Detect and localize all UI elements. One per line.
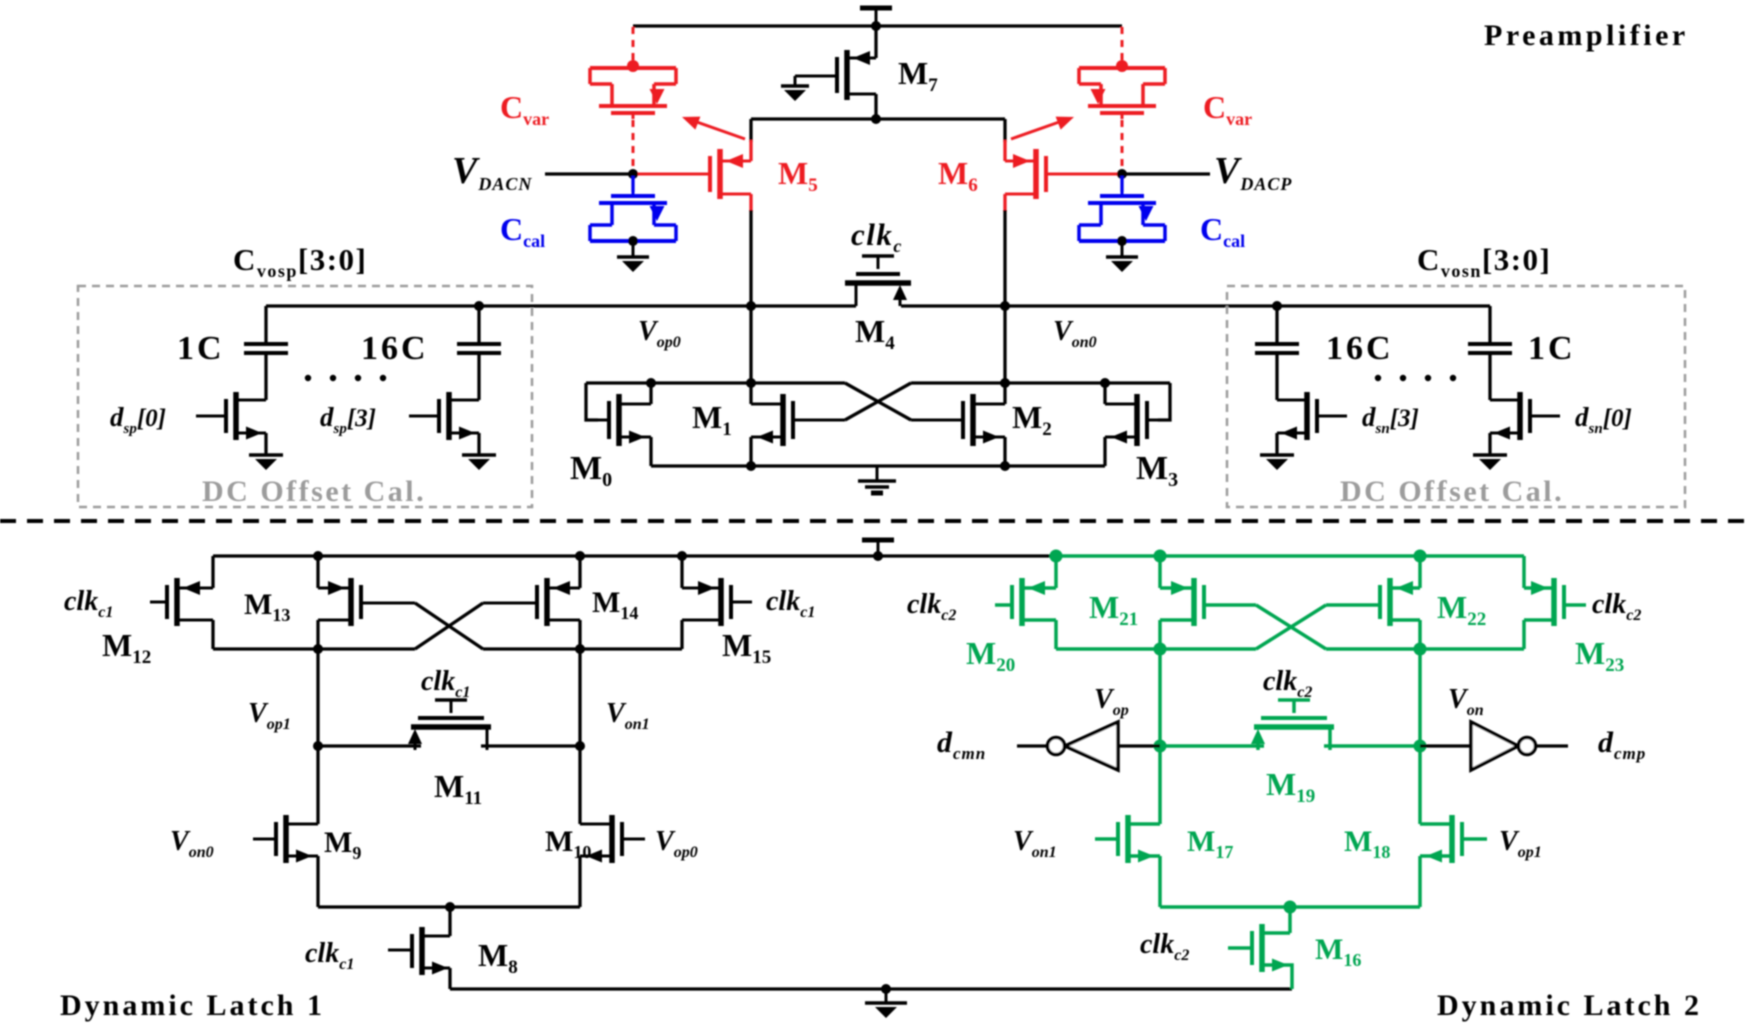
svg-text:dsn[0]: dsn[0] xyxy=(1575,402,1632,437)
svg-text:dsn[3]: dsn[3] xyxy=(1362,402,1419,437)
wire M20 source corner (green) xyxy=(1054,556,1058,588)
ground (d_sn[0]) xyxy=(1473,441,1507,470)
ground (core tail) xyxy=(858,466,896,493)
capacitor 1C (right box) xyxy=(1468,344,1512,353)
svg-text:16C: 16C xyxy=(1326,330,1394,367)
svg-text:1C: 1C xyxy=(1528,330,1576,367)
node C_cal right bottom dot xyxy=(1117,236,1127,246)
node M21 source rail dot xyxy=(1154,550,1167,563)
label Preamplifier xyxy=(1484,19,1689,52)
label V_on1 (latch1) xyxy=(606,698,650,733)
transistor M2 xyxy=(911,394,1005,446)
wire right 16C bottom lead xyxy=(1275,353,1278,400)
label M18 xyxy=(1344,825,1390,862)
wire 1C top lead xyxy=(264,306,267,344)
capacitor C_cal (right) xyxy=(1079,190,1165,241)
label M12 xyxy=(102,627,151,668)
wire M16 drain up (green) xyxy=(1288,907,1292,933)
node rail dot V_on0 xyxy=(1000,301,1010,311)
wire latch top rail (green) xyxy=(1056,554,1524,558)
node core dot V_op0 xyxy=(746,378,756,388)
node M13 source rail dot xyxy=(313,551,323,561)
wire M7 drain down xyxy=(874,94,877,119)
svg-text:DC Offset Cal.: DC Offset Cal. xyxy=(202,475,426,508)
svg-text:Dynamic Latch 2: Dynamic Latch 2 xyxy=(1437,989,1702,1022)
capacitor 16C (right box) xyxy=(1255,344,1299,353)
label Dynamic Latch 1 xyxy=(60,989,325,1022)
svg-text:Cvosn[3:0]: Cvosn[3:0] xyxy=(1417,242,1551,281)
transistor M16 (green) xyxy=(1228,924,1290,972)
node M11 left dot xyxy=(313,741,323,751)
wire latch2 right vertical (green) xyxy=(1418,649,1422,824)
node M14 source rail dot xyxy=(575,551,585,561)
label M10 xyxy=(545,825,591,862)
label M22 xyxy=(1437,589,1486,630)
svg-text:dsp[3]: dsp[3] xyxy=(320,402,376,437)
wire M3 gate corner xyxy=(1158,383,1170,420)
wire V_on0 vertical xyxy=(1003,306,1006,404)
wire M6 source up (black part) xyxy=(1003,119,1006,142)
label clk_c1 (M11) xyxy=(421,666,470,701)
label V_op1 (M18 gate) xyxy=(1499,826,1542,861)
label 1C (right box) xyxy=(1528,330,1576,367)
wire 16C bottom lead xyxy=(477,353,480,400)
wire M13 drain down xyxy=(316,620,319,649)
label clk_c1 (M15) xyxy=(766,586,815,621)
wire M3 source down xyxy=(1103,437,1106,466)
dots ellipsis left box xyxy=(305,375,386,381)
wire latch top rail (black) xyxy=(213,554,1058,557)
label clk_c1 (M8) xyxy=(305,938,354,973)
wire M10 source down xyxy=(578,856,581,907)
svg-text:DC Offset Cal.: DC Offset Cal. xyxy=(1340,475,1564,508)
label d_sn[0] xyxy=(1575,402,1632,437)
transistor M8 xyxy=(388,927,450,975)
wire M5 drain down to V_op0 rail xyxy=(749,210,752,306)
wire inverter2 output lead xyxy=(1536,744,1568,747)
node core source dot left xyxy=(746,461,756,471)
wire V_DACP lead xyxy=(1122,172,1210,175)
wire latch2 cross diagonal A (green) xyxy=(1256,605,1326,649)
transistor M19 (green pass gate) xyxy=(1251,700,1334,750)
wire M6 drain down (red part) xyxy=(1003,194,1006,212)
wire cross-couple diagonal A (core) xyxy=(845,383,911,420)
label 16C (right box) xyxy=(1326,330,1394,367)
annotation arrow to left C_var xyxy=(682,117,745,139)
wire red dashed right (C_var top plate to supply) xyxy=(1121,27,1124,62)
box DC offset cal right (dashed) xyxy=(1227,286,1685,507)
label V_DACP xyxy=(1214,150,1292,194)
wire inverter1 output lead xyxy=(1017,744,1046,747)
label M7 xyxy=(898,55,938,96)
wire latch2 lower rail right (green) xyxy=(1326,647,1524,651)
node latch2 lower left dot xyxy=(1154,643,1167,656)
capacitor C_var (left varactor) xyxy=(590,68,676,119)
wire V_on0 rail (right) xyxy=(901,304,1490,307)
wire M5 source up (red part) xyxy=(749,140,752,161)
transistor d_sn[3] switch xyxy=(1277,392,1347,440)
transistor d_sp[3] switch xyxy=(409,392,479,440)
label V_on1 (M17 gate) xyxy=(1013,826,1057,861)
node core dot M0 drain xyxy=(646,378,656,388)
wire 1C right bottom lead xyxy=(1488,353,1491,400)
ground (d_sn[3]) xyxy=(1260,441,1294,470)
wire M19 left link (green) xyxy=(1160,744,1264,748)
label V_on0 xyxy=(1053,316,1097,351)
node V_DACN junction dot xyxy=(628,169,638,179)
wire latch1 lower rail right xyxy=(483,647,682,650)
label d_cmn xyxy=(937,726,986,763)
wire M22 source up (green) xyxy=(1418,556,1422,588)
label M19 xyxy=(1266,766,1315,807)
wire M11 right link xyxy=(481,744,580,747)
svg-text:Dynamic Latch 1: Dynamic Latch 1 xyxy=(60,989,325,1022)
label M20 xyxy=(966,635,1015,676)
transistor M13 xyxy=(318,578,415,626)
wire V_on1 vertical xyxy=(578,649,581,824)
wire V_op0 rail (left) xyxy=(266,304,856,307)
node M20 source rail dot xyxy=(1050,550,1063,563)
transistor M6 (red) xyxy=(1005,149,1122,199)
transistor M0 xyxy=(598,394,651,446)
node core source dot right xyxy=(1000,461,1010,471)
label C_cal (left) xyxy=(500,211,545,251)
label V_op1 (latch1) xyxy=(248,698,291,733)
wire V_op1 vertical xyxy=(316,649,319,824)
node M11 right dot xyxy=(575,741,585,751)
svg-text:1C: 1C xyxy=(177,330,225,367)
wire M21 drain down (green) xyxy=(1158,620,1162,649)
wire core source rail xyxy=(651,464,1105,467)
dots ellipsis right box xyxy=(1375,375,1456,381)
label C_var (right) xyxy=(1203,89,1252,129)
node M15 source rail dot xyxy=(677,551,687,561)
wire V_op0 vertical xyxy=(749,306,752,404)
node bottom rail ground dot xyxy=(881,984,891,994)
wire d_sn[3] source down xyxy=(1275,433,1278,453)
transistor M18 (green) xyxy=(1420,815,1487,863)
label M11 xyxy=(434,768,482,809)
label d_sn[3] xyxy=(1362,402,1419,437)
wire M12 source corner xyxy=(211,556,214,588)
wire d_sn[0] source down xyxy=(1488,433,1491,453)
node latch1 lower left dot xyxy=(313,644,323,654)
ground (bottom rail) xyxy=(865,989,907,1018)
label M4 xyxy=(855,313,895,354)
label 16C (left box) xyxy=(361,330,429,367)
wire 16C top lead xyxy=(477,306,480,344)
ground (C_cal left) xyxy=(617,241,649,272)
wire right 16C top lead xyxy=(1275,306,1278,344)
wire V_DACN lead xyxy=(545,172,633,175)
ground (d_sp[3]) xyxy=(462,441,496,470)
wire M20 drain corner (green) xyxy=(1054,620,1058,649)
ground (M7 gate) xyxy=(781,76,809,101)
wire C_cal right gate stub xyxy=(1120,176,1123,192)
wire M15 drain down xyxy=(680,620,683,649)
label M16 xyxy=(1315,933,1361,970)
label M2 xyxy=(1012,399,1052,440)
wire M15 source up xyxy=(680,556,683,588)
label V_on0 (M9 gate) xyxy=(170,826,214,861)
wire latch1 cross diagonal A xyxy=(415,603,483,649)
label M3 xyxy=(1136,450,1178,491)
label d_sp[3] xyxy=(320,402,376,437)
transistor M1 xyxy=(751,394,845,446)
label M5 xyxy=(778,155,818,196)
transistor M11 (pass gate) xyxy=(408,700,491,750)
label M6 xyxy=(938,155,978,196)
node core dot V_on0 xyxy=(1000,378,1010,388)
node VDD latch dot xyxy=(873,551,883,561)
label d_cmp xyxy=(1598,726,1646,763)
wire d_sp[0] source down xyxy=(264,433,267,453)
wire M16 source down (green) xyxy=(1290,965,1292,989)
transistor M20 (green) xyxy=(995,578,1056,626)
wire M22 drain down (green) xyxy=(1418,620,1422,649)
label V_on (inverter2) xyxy=(1448,684,1484,719)
wire M21 source up (green) xyxy=(1158,556,1162,588)
node V_DACP junction dot xyxy=(1117,169,1127,179)
wire bottom ground rail xyxy=(450,987,1292,990)
transistor M23 (green) xyxy=(1524,578,1586,626)
transistor M3 xyxy=(1105,394,1158,446)
label clk_c2 (M20) xyxy=(907,589,956,624)
transistor M5 (red) xyxy=(633,149,751,199)
wire M13 source up xyxy=(316,556,319,588)
node C_var right top dot xyxy=(1116,60,1128,72)
wire 1C right top lead xyxy=(1488,306,1491,344)
wire M12 drain corner xyxy=(211,620,214,649)
label C_vosp[3:0] xyxy=(233,242,367,281)
label 1C (left box) xyxy=(177,330,225,367)
wire red dashed right (C_var gate to V_DACP node) xyxy=(1121,120,1124,168)
capacitor 16C (left box) xyxy=(457,344,501,353)
wire M0 drain up xyxy=(649,383,652,404)
wire M18 source down (green) xyxy=(1418,856,1422,907)
power supply VDD (top) xyxy=(860,8,892,27)
wire M5 drain down (red part) xyxy=(749,194,752,212)
label C_vosn[3:0] xyxy=(1417,242,1551,281)
wire latch2 lower rail left (green) xyxy=(1056,647,1256,651)
transistor M4 (pass gate) xyxy=(845,256,911,306)
inverter U1 (d_cmn) xyxy=(1048,722,1119,770)
wire core top line right xyxy=(911,381,1170,384)
label clk_c1 (M12) xyxy=(64,586,113,621)
node C_var left top dot xyxy=(627,60,639,72)
wire preamp top cross rail xyxy=(751,117,1005,120)
wire inverter1 input lead xyxy=(1118,744,1160,747)
label M14 xyxy=(592,586,638,623)
label M17 xyxy=(1187,825,1233,862)
label C_cal (right) xyxy=(1200,211,1245,251)
label V_op0 (M10 gate) xyxy=(655,826,698,861)
wire d_sp[3] source down xyxy=(477,433,480,453)
wire M23 source corner (green) xyxy=(1522,556,1526,588)
wire cross-couple diagonal B (core) xyxy=(845,383,911,420)
label M9 xyxy=(324,826,361,863)
label M13 xyxy=(244,588,290,625)
transistor M17 (green) xyxy=(1095,815,1160,863)
annotation arrow to right C_var xyxy=(1011,117,1074,139)
transistor M10 xyxy=(580,815,645,863)
wire M14 source up xyxy=(578,556,581,588)
node C_cal left bottom dot xyxy=(628,236,638,246)
wire M2 source down xyxy=(1003,437,1006,466)
wire red dashed left (C_var top plate to supply) xyxy=(632,27,635,62)
svg-text:Cvosp[3:0]: Cvosp[3:0] xyxy=(233,242,367,281)
label V_DACN xyxy=(452,150,532,194)
label d_sp[0] xyxy=(110,402,166,437)
wire latch2 left vertical (green) xyxy=(1158,649,1162,824)
node rail dot V_op0 xyxy=(746,301,756,311)
separator dashed line xyxy=(0,519,1750,523)
label clk_c2 (M19) xyxy=(1263,666,1312,701)
node VDD top rail dot xyxy=(871,21,881,31)
wire inverter2 input lead xyxy=(1420,744,1471,747)
node M19 left dot xyxy=(1154,740,1167,753)
wire M7 source to rail xyxy=(874,26,877,58)
wire M17 source down (green) xyxy=(1158,856,1162,907)
wire latch1 cross diagonal B xyxy=(415,603,483,649)
node latch1 lower right dot xyxy=(575,644,585,654)
label Dynamic Latch 2 xyxy=(1437,989,1702,1022)
node latch1 tail dot xyxy=(445,902,455,912)
svg-text:16C: 16C xyxy=(361,330,429,367)
node M19 right dot xyxy=(1414,740,1427,753)
label DC Offset Cal. (left) xyxy=(202,475,426,508)
wire latch1 lower rail left xyxy=(213,647,415,650)
capacitor C_cal (left) xyxy=(590,190,676,241)
label C_var (left) xyxy=(500,89,549,129)
label V_op0 xyxy=(638,316,681,351)
inverter U2 (d_cmp) xyxy=(1471,722,1536,770)
wire M0 source down xyxy=(649,437,652,466)
node core dot M3 drain xyxy=(1100,378,1110,388)
label M8 xyxy=(478,937,518,978)
transistor M22 (green) xyxy=(1326,578,1420,626)
power supply VDD (latch rail) xyxy=(862,540,894,556)
label M1 xyxy=(692,399,732,440)
capacitor C_var (right varactor) xyxy=(1079,68,1165,119)
label clk_c xyxy=(851,217,903,256)
wire M1 source down xyxy=(749,437,752,466)
wire M5 source up (black part) xyxy=(749,119,752,142)
wire red dashed left (C_var gate to V_DACN node) xyxy=(632,120,635,168)
label M21 xyxy=(1089,589,1138,630)
wire M6 drain down to V_on0 rail xyxy=(1003,210,1006,306)
wire latch2 cross diagonal B (green) xyxy=(1256,605,1326,649)
transistor M14 xyxy=(483,578,580,626)
wire M9 source down xyxy=(316,856,319,907)
wire latch2 tail rail (green) xyxy=(1160,905,1420,909)
label DC Offset Cal. (right) xyxy=(1340,475,1564,508)
ground (d_sp[0]) xyxy=(249,441,283,470)
wire M11 left link xyxy=(318,744,421,747)
label M23 xyxy=(1575,635,1624,676)
wire M23 drain corner (green) xyxy=(1522,620,1526,649)
wire M14 drain down xyxy=(578,620,581,649)
node M22 source rail dot xyxy=(1414,550,1427,563)
wire core top line left xyxy=(586,381,845,384)
wire latch1 tail rail xyxy=(318,905,580,908)
transistor d_sn[0] switch xyxy=(1490,392,1560,440)
wire M0 gate corner xyxy=(586,383,598,420)
wire top supply rail xyxy=(633,24,1122,27)
wire M8 drain up xyxy=(448,907,451,936)
wire M6 source up (red part) xyxy=(1003,140,1006,161)
node M7 drain dot xyxy=(871,114,881,124)
node rail dot left 16C xyxy=(474,301,484,311)
label clk_c2 (M16) xyxy=(1140,929,1189,964)
wire M8 source down xyxy=(448,968,451,989)
capacitor 1C (left box) xyxy=(244,344,288,353)
node latch2 lower right dot xyxy=(1414,643,1427,656)
label M0 xyxy=(570,450,612,491)
wire M19 right link (green) xyxy=(1324,744,1420,748)
label V_op (inverter1) xyxy=(1094,684,1129,719)
transistor M21 (green) xyxy=(1160,578,1256,626)
transistor M7 xyxy=(795,50,876,100)
label M15 xyxy=(722,627,771,668)
ground (C_cal right) xyxy=(1106,241,1138,272)
wire M3 drain up xyxy=(1103,383,1106,404)
label clk_c2 (M23) xyxy=(1592,589,1641,624)
svg-text:dsp[0]: dsp[0] xyxy=(110,402,166,437)
transistor M15 xyxy=(682,578,752,626)
transistor d_sp[0] switch xyxy=(196,392,266,440)
transistor M9 xyxy=(253,815,318,863)
box DC offset cal left (dashed) xyxy=(78,286,532,507)
node latch2 tail dot xyxy=(1284,901,1297,914)
svg-text:Preamplifier: Preamplifier xyxy=(1484,19,1689,52)
node rail dot right 16C xyxy=(1272,301,1282,311)
wire 1C bottom lead xyxy=(264,353,267,400)
transistor M12 xyxy=(150,578,213,626)
wire C_cal left gate stub xyxy=(631,176,634,192)
